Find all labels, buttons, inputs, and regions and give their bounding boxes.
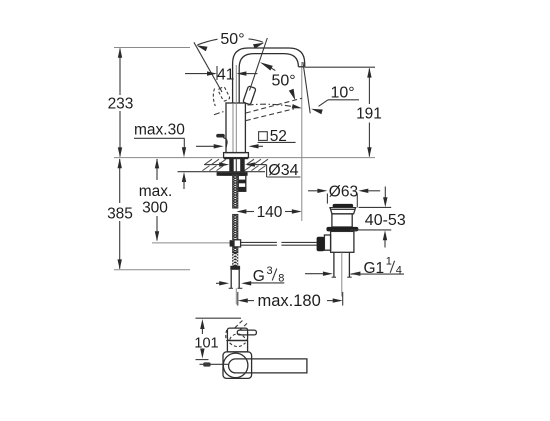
topview raised lever dashes bbox=[235, 319, 244, 327]
faucet base plate bbox=[224, 153, 249, 158]
topview extension line back bbox=[196, 317, 242, 319]
swivel spout dashed position bbox=[246, 98, 302, 113]
extension line spout outlet (191 top) bbox=[305, 66, 375, 68]
drain plug skirt bbox=[330, 208, 356, 214]
svg-text:50°: 50° bbox=[272, 72, 296, 89]
svg-text:Ø63: Ø63 bbox=[329, 183, 358, 200]
axis line solid lever bbox=[250, 38, 268, 91]
dim 191 bbox=[356, 68, 382, 158]
drain knob bbox=[317, 237, 325, 252]
svg-text:max.180: max.180 bbox=[258, 292, 321, 310]
drain tailpipe bbox=[332, 252, 352, 277]
dim 10deg outlet angle bbox=[311, 85, 359, 115]
topview extension line spout axis bbox=[196, 359, 209, 361]
body inner lines bbox=[232, 104, 234, 153]
svg-text:50°: 50° bbox=[220, 31, 244, 48]
svg-text:3: 3 bbox=[267, 265, 273, 277]
leader arrow to dashed spout bbox=[289, 89, 296, 101]
deck surface line bbox=[114, 157, 375, 159]
threaded shank through deck bbox=[229, 158, 244, 172]
linkage rod to drain bbox=[241, 242, 317, 245]
svg-text:8: 8 bbox=[278, 273, 284, 285]
svg-text:4: 4 bbox=[396, 264, 402, 276]
topview mid section bbox=[227, 341, 247, 352]
swivel arc dash-dot bbox=[214, 111, 225, 115]
topview handle dashed arc bbox=[230, 334, 246, 339]
spout tube outer bbox=[233, 48, 305, 103]
dim square 52 bbox=[196, 128, 296, 149]
dim 101 bbox=[194, 319, 218, 359]
dim 385 bbox=[107, 158, 133, 269]
drain side port bbox=[324, 235, 330, 250]
extension line spout top bbox=[114, 47, 190, 49]
base seat dark band bbox=[224, 158, 248, 160]
svg-text:max.30: max.30 bbox=[134, 122, 185, 139]
deck underside max line bbox=[178, 171, 266, 173]
outlet slanted reference line bbox=[303, 62, 310, 113]
dim G1 1/4 bbox=[305, 256, 404, 277]
svg-text:1: 1 bbox=[386, 256, 392, 268]
axis line dashed lever bbox=[194, 42, 222, 92]
mounting washer bbox=[217, 172, 248, 176]
threaded pull rod upper bbox=[233, 175, 238, 208]
spout tube inner bbox=[239, 54, 298, 103]
topview spout bar bbox=[229, 359, 307, 373]
deck hatching bbox=[203, 159, 269, 170]
svg-text:10°: 10° bbox=[331, 85, 355, 102]
svg-text:191: 191 bbox=[356, 105, 382, 122]
faucet center line lower bbox=[235, 288, 237, 304]
drain neck bbox=[332, 214, 352, 227]
svg-text:Ø34: Ø34 bbox=[268, 162, 298, 179]
handle lever (solid) bbox=[243, 86, 256, 105]
svg-text:G1: G1 bbox=[364, 260, 385, 277]
svg-text:233: 233 bbox=[108, 96, 134, 113]
svg-text:140: 140 bbox=[257, 204, 283, 221]
svg-text:385: 385 bbox=[107, 206, 133, 223]
svg-text:300: 300 bbox=[142, 200, 168, 217]
G3/8 threaded adapter bbox=[232, 252, 238, 266]
svg-text:G: G bbox=[253, 268, 265, 285]
dim 50deg handle arc bbox=[196, 31, 264, 51]
topview mid dashed arc bbox=[230, 343, 246, 347]
extension line x302 (140 dim) bbox=[301, 62, 303, 221]
pull rod coupler bbox=[230, 240, 241, 247]
leader arrow to spout bend axis bbox=[272, 68, 276, 70]
handle lever (dashed alt position) bbox=[218, 86, 231, 101]
topview spout bearing circle bbox=[223, 353, 248, 378]
dim 140 bbox=[236, 204, 301, 221]
supply bottom reference line bbox=[114, 269, 190, 271]
topview base square bbox=[223, 352, 252, 379]
svg-text:101: 101 bbox=[194, 335, 218, 351]
drain body bbox=[331, 231, 354, 252]
threaded pull rod lower bbox=[233, 247, 238, 252]
svg-text:41: 41 bbox=[217, 66, 234, 83]
threaded pull rod mid bbox=[233, 215, 238, 240]
dim 41 riser offset bbox=[185, 66, 258, 83]
spout outlet face bbox=[298, 66, 304, 68]
topview aerator needle bbox=[200, 363, 229, 365]
drain plug cap bbox=[333, 204, 354, 208]
dim G3/8 bbox=[216, 265, 284, 286]
dim max.30 (deck thickness) bbox=[134, 122, 186, 190]
dim diameter 63 bbox=[308, 183, 380, 207]
supply tube bbox=[229, 270, 243, 289]
dim max.180 bbox=[238, 292, 343, 310]
dim 233 bbox=[108, 48, 134, 158]
svg-text:40-53: 40-53 bbox=[365, 212, 406, 229]
dim max.300 bbox=[139, 158, 173, 241]
dim 40-53 bbox=[350, 187, 406, 248]
check valve stub bbox=[238, 175, 246, 191]
drain center line bbox=[341, 253, 343, 297]
pull-rod knob bbox=[216, 134, 227, 147]
riser center line bbox=[235, 65, 237, 103]
faucet body bbox=[226, 103, 245, 153]
dim diameter 34 shank bbox=[204, 162, 301, 179]
topview handle base bbox=[227, 328, 247, 340]
drain flange bbox=[326, 227, 358, 232]
max300 bottom reference line bbox=[152, 242, 232, 244]
topview handle left dashed arc bbox=[226, 330, 227, 341]
topview lever bar bbox=[237, 330, 256, 335]
dashed arc near lever bbox=[213, 89, 215, 107]
svg-text:max.: max. bbox=[139, 183, 173, 200]
adapter hex nut bbox=[230, 266, 240, 270]
